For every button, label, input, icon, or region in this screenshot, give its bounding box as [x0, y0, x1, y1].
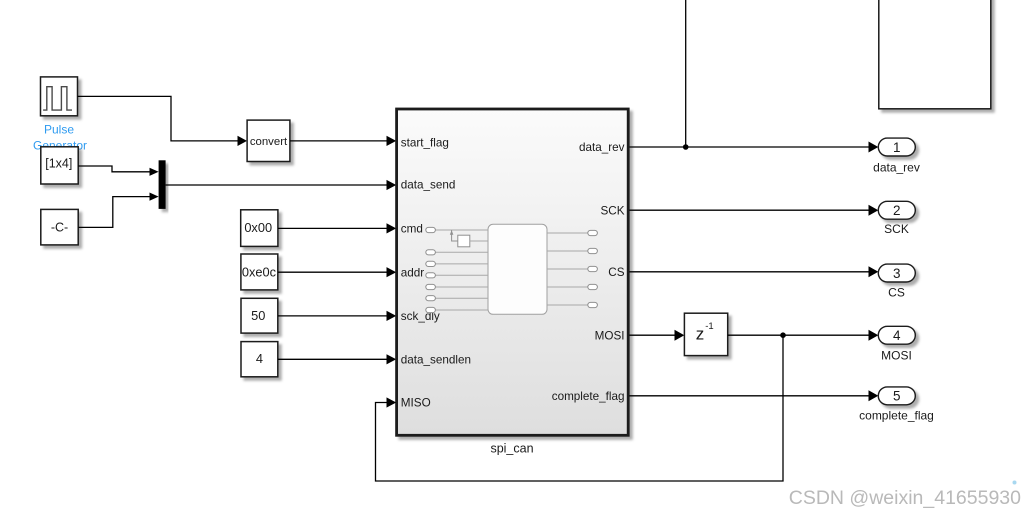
label Pulse Generator — [33, 122, 87, 152]
svg-text:[1x4]: [1x4] — [45, 157, 72, 171]
svg-text:data_send: data_send — [401, 179, 456, 192]
block [1x4] — [41, 147, 78, 184]
label SCK — [884, 222, 909, 236]
wire MOSI to unit delay — [630, 330, 685, 341]
wire 0x00 to cmd — [278, 223, 396, 233]
outport 4 MOSI — [878, 326, 915, 344]
spi_can preview sub block — [450, 230, 488, 247]
wire unit delay to MOSI port — [728, 330, 879, 341]
wire Pulse Generator to convert — [78, 96, 248, 146]
junction MOSI — [780, 332, 786, 338]
svg-text:data_rev: data_rev — [873, 160, 920, 174]
svg-text:z: z — [696, 324, 705, 343]
svg-text:CSDN @weixin_41655930: CSDN @weixin_41655930 — [789, 487, 1021, 509]
svg-text:start_flag: start_flag — [401, 136, 449, 149]
wire complete_flag — [630, 390, 879, 401]
spi_can right port labels — [552, 141, 625, 403]
spi_can preview right port ovals — [588, 230, 598, 307]
svg-text:5: 5 — [893, 389, 901, 404]
svg-text:-1: -1 — [705, 321, 713, 332]
svg-text:SCK: SCK — [600, 204, 624, 217]
spi_can preview left port ovals — [426, 227, 436, 312]
svg-text:0x00: 0x00 — [244, 220, 272, 235]
label MOSI — [881, 348, 912, 362]
spi_can preview content block — [488, 224, 547, 314]
svg-text:data_sendlen: data_sendlen — [401, 353, 471, 366]
wire data_rev to top — [685, 0, 687, 147]
junction data_rev — [683, 144, 689, 150]
constant 0xe0c — [241, 254, 278, 290]
constant 50 — [241, 298, 278, 333]
block convert — [247, 120, 290, 161]
svg-text:50: 50 — [251, 308, 265, 323]
block top right — [879, 0, 991, 109]
svg-text:complete_flag: complete_flag — [859, 409, 934, 423]
svg-text:spi_can: spi_can — [490, 441, 533, 455]
svg-text:3: 3 — [893, 266, 901, 281]
outport 1 data_rev — [878, 138, 915, 156]
svg-text:convert: convert — [250, 136, 288, 148]
label complete_flag — [859, 409, 934, 423]
mux — [159, 160, 166, 209]
svg-text:CS: CS — [608, 266, 624, 279]
spi_can preview right wires — [547, 233, 588, 305]
wire data_rev — [630, 142, 879, 153]
subsystem spi_can — [397, 109, 629, 435]
svg-text:MISO: MISO — [401, 397, 431, 410]
svg-text:-C-: -C- — [51, 221, 68, 235]
wire SCK — [630, 205, 879, 216]
wire -C- to mux — [79, 193, 159, 228]
unit delay z-1 — [684, 313, 727, 355]
watermark — [789, 487, 1021, 509]
svg-text:Pulse: Pulse — [44, 122, 74, 136]
label data_rev — [873, 160, 920, 174]
svg-text:complete_flag: complete_flag — [552, 390, 625, 403]
svg-text:MOSI: MOSI — [595, 329, 625, 342]
wire mux to data_send — [166, 180, 397, 190]
watermark dot — [1013, 481, 1017, 485]
label spi_can — [490, 441, 533, 455]
svg-text:addr: addr — [401, 267, 425, 280]
label CS — [888, 285, 905, 299]
svg-text:4: 4 — [256, 351, 263, 366]
wire 4 to data_sendlen — [278, 354, 396, 364]
wire 50 to sck_dly — [278, 311, 396, 321]
outport 3 CS — [878, 264, 915, 282]
svg-text:CS: CS — [888, 285, 905, 299]
constant 0x00 — [241, 210, 278, 247]
wire [1x4] to mux — [78, 166, 158, 176]
pulse generator icon — [43, 87, 72, 110]
svg-text:1: 1 — [893, 140, 901, 155]
outport 5 complete_flag — [878, 387, 915, 405]
spi_can left port labels — [401, 136, 471, 409]
wire convert to start_flag — [290, 136, 396, 146]
svg-text:4: 4 — [893, 328, 901, 343]
wire 0xe0c to addr — [278, 267, 396, 277]
svg-text:MOSI: MOSI — [881, 348, 912, 362]
outport 2 SCK — [878, 201, 915, 219]
block Pulse Generator — [41, 77, 78, 116]
svg-text:0xe0c: 0xe0c — [242, 265, 277, 280]
spi_can preview left wires — [435, 230, 488, 310]
svg-text:data_rev: data_rev — [579, 141, 625, 154]
constant 4 — [241, 342, 278, 377]
svg-text:SCK: SCK — [884, 222, 909, 236]
wire CS — [630, 266, 879, 277]
feedback wire MOSI to MISO — [376, 335, 784, 481]
constant -C- — [41, 209, 78, 245]
svg-text:2: 2 — [893, 203, 901, 218]
svg-text:cmd: cmd — [401, 223, 423, 236]
